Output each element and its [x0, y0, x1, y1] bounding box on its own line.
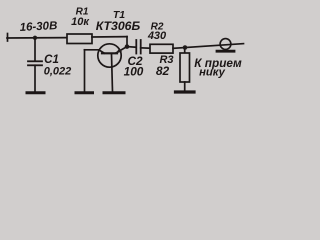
svg-text:16-30В: 16-30В: [19, 20, 57, 34]
wire: terminal to R1: [7, 37, 67, 39]
transistor T1 base bar: [102, 52, 117, 54]
svg-text:430: 430: [147, 30, 167, 42]
svg-text:100: 100: [124, 65, 144, 79]
output plug circle: [220, 39, 231, 50]
wire: R2 to output plug: [173, 44, 244, 49]
wire: node B down to R3: [184, 48, 186, 54]
svg-text:0,022: 0,022: [44, 66, 72, 78]
capacitor C1: [28, 61, 42, 65]
node B (attenuator tap): [183, 45, 188, 50]
node: supply junction: [33, 36, 37, 40]
paper background: [0, 0, 250, 110]
ground (R3): [176, 90, 195, 93]
output plug base bar: [217, 50, 234, 53]
wire: base lead down to ground: [112, 54, 113, 92]
capacitor C2: [136, 40, 140, 54]
wire: node A to C2: [127, 46, 136, 49]
wire: R1 to corner: [92, 36, 127, 38]
wire: collector lead down to ground: [84, 50, 86, 92]
wire: corner down to node A: [126, 37, 128, 47]
transistor T1 collector lead: [85, 50, 105, 53]
wire: C1 to ground: [34, 65, 36, 91]
supply input terminal: [7, 34, 9, 42]
wire: R3 to ground: [184, 82, 186, 91]
transistor T1 body: [98, 44, 121, 67]
resistor R3: [180, 53, 190, 82]
svg-text:нику: нику: [199, 67, 226, 79]
svg-text:10к: 10к: [71, 16, 90, 28]
svg-text:82: 82: [156, 64, 170, 78]
ground (collector): [76, 91, 93, 94]
node A (collector node): [125, 44, 130, 49]
wire: C2 to R2: [141, 47, 150, 49]
transistor T1 emitter arrow: [116, 49, 122, 54]
ground (base): [104, 91, 124, 94]
svg-text:C1: C1: [44, 54, 59, 66]
resistor R2: [150, 44, 173, 53]
svg-text:КТ306Б: КТ306Б: [96, 19, 141, 33]
wire: junction down to C1: [34, 38, 36, 61]
transistor T1 emitter lead: [116, 47, 127, 54]
ground (C1): [27, 91, 44, 94]
resistor R1: [67, 34, 92, 44]
